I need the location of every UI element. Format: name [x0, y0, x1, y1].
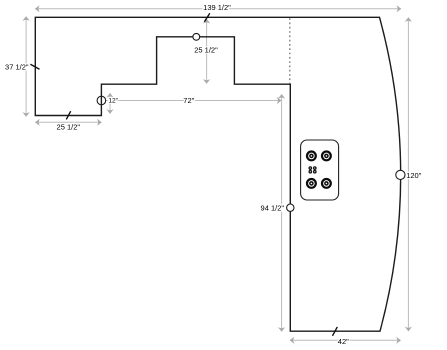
dimension 12 up arrow	[106, 93, 113, 98]
svg-text:12": 12"	[108, 98, 118, 105]
dimension 139 1/2 left arrow	[35, 5, 40, 12]
svg-text:120": 120"	[406, 171, 422, 180]
burner bottom-right	[322, 179, 331, 188]
circle marker on step edge (drawn under outline)	[97, 96, 106, 105]
circle marker on curved edge	[396, 170, 405, 179]
seam slash on bottom-left edge	[66, 111, 70, 119]
seam slash on top edge	[204, 13, 209, 21]
dotted projection line at inner corner	[289, 18, 291, 84]
dimension 72 horizontal: line	[101, 100, 281, 102]
dimension 94 1/2 vertical: line	[281, 95, 283, 332]
svg-text:94 1/2": 94 1/2"	[261, 203, 285, 212]
dimension 42 left arrow	[290, 337, 295, 344]
dimension 72 left arrow	[101, 97, 106, 104]
dimension 25 1/2 notch depth: line	[206, 19, 208, 83]
dimension 25 1/2 bottom-left arrows	[35, 119, 40, 126]
burner top-left	[307, 152, 316, 161]
countertop outline	[35, 17, 400, 331]
cooktop symbol	[301, 140, 339, 200]
dimension 139 1/2 right arrow	[397, 5, 402, 12]
seam slash on bottom edge	[333, 327, 338, 336]
burner bottom-left	[307, 179, 316, 188]
svg-text:25 1/2": 25 1/2"	[57, 122, 81, 131]
circle marker on right arm edge	[287, 204, 294, 211]
svg-text:72": 72"	[183, 96, 194, 105]
dimension 120 up arrow	[405, 17, 412, 22]
dimension 94 1/2 up arrow	[278, 94, 285, 99]
dimension 12 down arrow	[106, 109, 113, 114]
seam slash on left edge	[30, 64, 39, 69]
burner top-right	[322, 152, 331, 161]
dimension 42 bottom: line	[290, 339, 401, 341]
svg-text:42": 42"	[338, 337, 349, 346]
dimension 120 right: line	[407, 18, 409, 331]
cooktop body	[301, 140, 339, 200]
dimension 94 1/2 down arrow	[278, 327, 285, 332]
svg-text:25 1/2": 25 1/2"	[194, 46, 218, 55]
dimension 120 down arrow	[405, 327, 412, 332]
dimension 37 1/2 left: line	[25, 17, 27, 116]
dimension 72 right arrow	[277, 97, 282, 104]
svg-text:139 1/2": 139 1/2"	[203, 3, 231, 12]
knob cluster	[308, 166, 316, 173]
dimension 25 1/2 notch down arrow	[203, 79, 210, 84]
dimension 42 right arrow	[396, 337, 401, 344]
dimension 139 1/2 top: line	[35, 8, 401, 10]
svg-text:37 1/2": 37 1/2"	[5, 63, 29, 72]
dimension 37 1/2 up arrow	[23, 16, 30, 21]
dimension 12 step: line	[109, 93, 111, 114]
circle marker on notch top edge	[193, 33, 200, 40]
dimension 25 1/2 notch up arrow	[203, 19, 210, 24]
dimension 25 1/2 bottom-left: line	[35, 121, 101, 123]
dimension 37 1/2 down arrow	[23, 112, 30, 117]
